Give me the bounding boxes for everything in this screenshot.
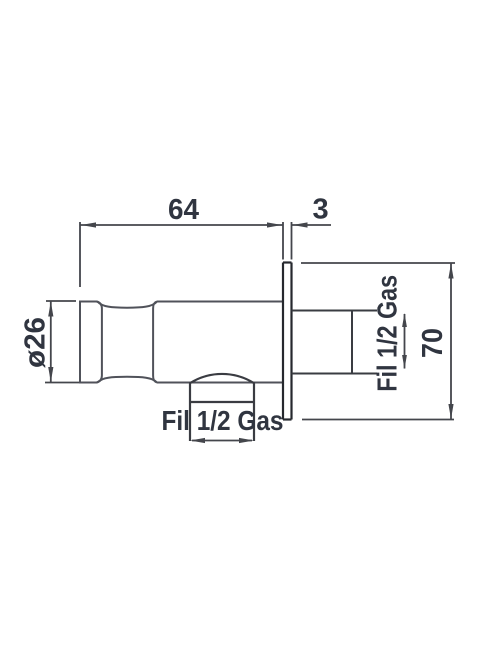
svg-text:ø26: ø26 [19, 317, 51, 368]
svg-text:70: 70 [417, 328, 449, 358]
svg-text:Fil 1/2 Gas: Fil 1/2 Gas [372, 275, 403, 392]
svg-text:Fil 1/2 Gas: Fil 1/2 Gas [162, 405, 284, 436]
svg-text:64: 64 [168, 194, 199, 226]
svg-text:3: 3 [313, 193, 329, 225]
